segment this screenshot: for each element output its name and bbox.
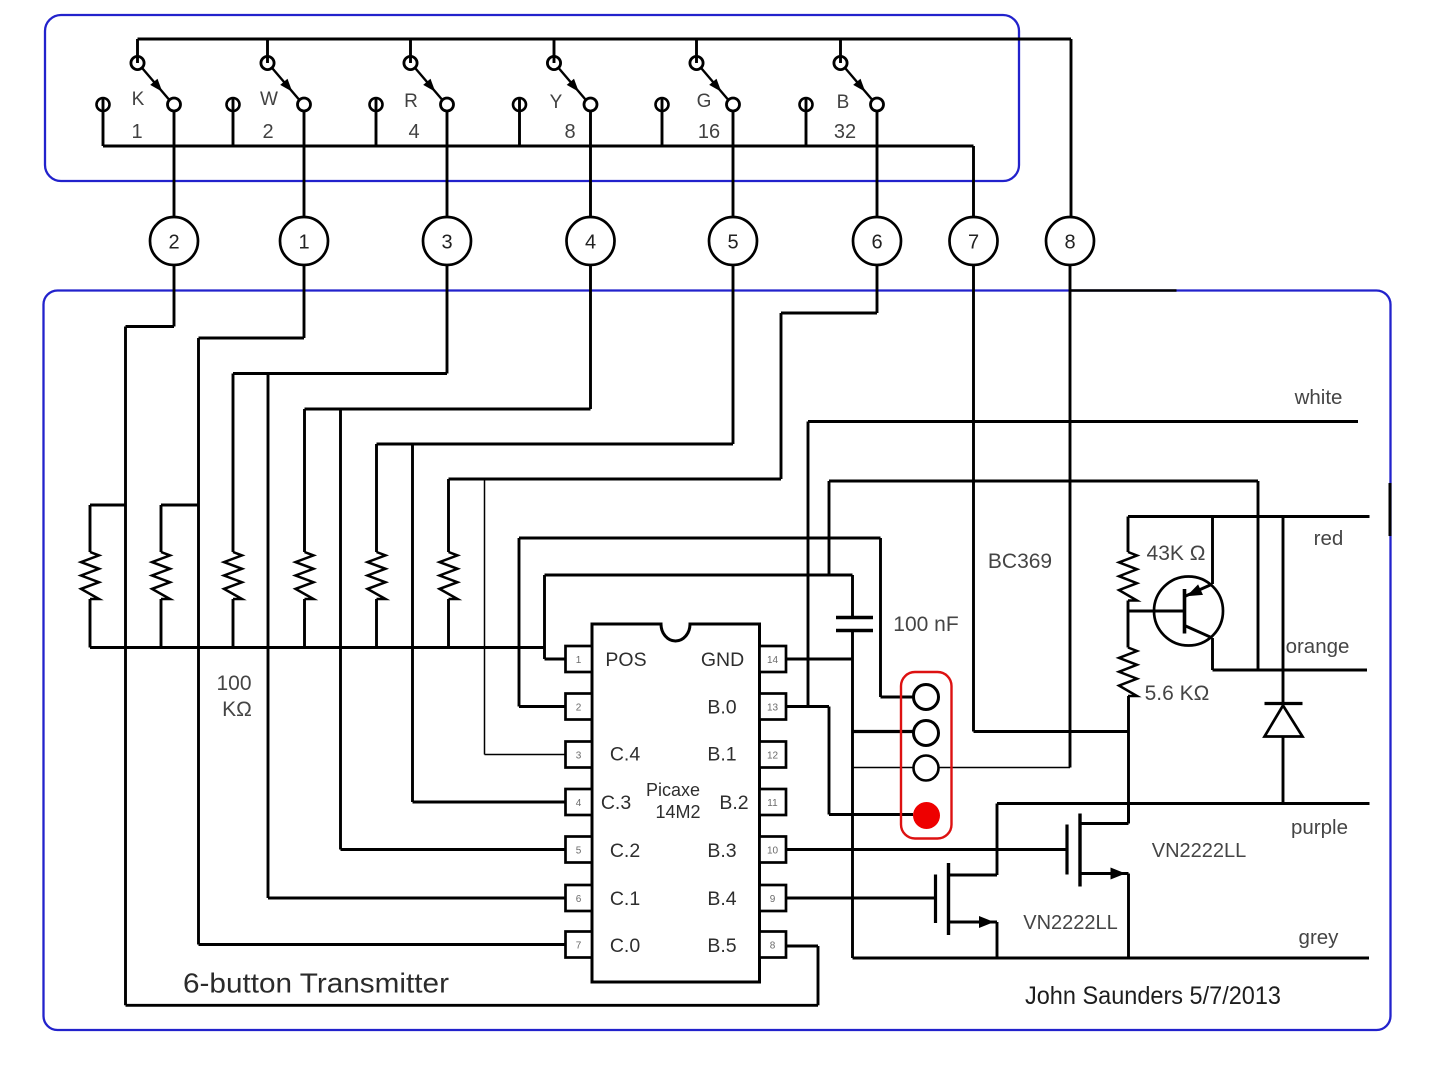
svg-text:4: 4 [408,121,419,143]
resistor R2 100K [152,552,170,648]
wire: GND to LED3 (thin) [853,767,914,769]
switch S1 (K) [131,39,181,111]
resistor R3 100K [224,552,242,648]
connector pin 4 [567,217,615,265]
LED4 circle (red) [913,802,940,829]
svg-text:R: R [404,91,418,112]
label value 1 [131,121,142,143]
wire: B.0 white net [785,422,1358,707]
wire: switch K pole to pin 2 [173,111,176,217]
wire: pin 7 net (conn7 down) [974,265,1129,732]
wire: conn8 to indicator (thin) [939,767,1071,769]
connector pin 2 [150,217,198,265]
indicator box (red) [901,672,952,839]
label 5.6K [1145,682,1210,705]
transistor Q2 VN2222LL [1067,804,1129,959]
label 100 nF [893,613,958,636]
wire: switch W pole to pin 1 [303,111,306,217]
diode D1 [1265,517,1303,804]
svg-text:1: 1 [131,121,142,143]
wire: branch conn4 to C.2 [341,409,566,850]
svg-text:1: 1 [298,232,309,254]
enclosure box: transmitter (blue) [44,291,1391,1031]
svg-text:13: 13 [767,703,779,714]
connector pin 1 [280,217,328,265]
switch S6 (B) [834,39,884,111]
LED1 circle [914,685,939,710]
label switch K [132,89,145,110]
resistor R7 43K [1119,517,1137,648]
svg-text:4: 4 [585,232,596,254]
label VN2222LL lower [1023,912,1118,934]
wire: top bus to pin 8 [1070,39,1073,217]
switch S2 (W) [261,39,311,111]
label grey [1299,926,1340,949]
svg-text:Y: Y [550,92,563,113]
wire: GND net [785,631,853,959]
wire: resistor common bus [90,646,545,649]
wire: branch conn5 to C.3 [413,444,566,802]
wire: GND to LED2 [853,730,914,733]
switch S4 (Y) [547,39,597,111]
wire: red rail [1128,515,1370,518]
label switch B [837,92,850,113]
svg-text:VN2222LL: VN2222LL [1152,840,1247,862]
wire: purple rail [997,802,1370,805]
label red [1314,527,1344,550]
svg-text:John Saunders 5/7/2013: John Saunders 5/7/2013 [1025,982,1281,1010]
wire: B.4 to Q3 gate [785,897,936,900]
wire: switch Y pole to pin 4 [589,111,592,217]
label switch W [260,89,278,110]
svg-text:9: 9 [770,894,776,905]
connector pin 8 [1046,217,1094,265]
wire: B.3 to Q2 gate [785,848,1067,851]
wire: switch B pole to pin 6 [876,111,879,217]
wire: B.0 to LED4 [829,707,913,815]
label white [1294,386,1343,409]
wire: bottom bus to pin 7 [972,146,975,217]
label purple [1291,816,1348,839]
wire: pin 1 net (conn1 -> C.0) [199,265,566,945]
switch S3 left contact [370,98,383,146]
svg-text:8: 8 [1064,232,1075,254]
svg-text:grey: grey [1299,926,1340,949]
wire: pin 5 net (conn5 -> R5, C.3) [377,265,734,552]
svg-text:43K Ω: 43K Ω [1147,542,1206,565]
label value 2 [262,121,273,143]
label value 32 [834,121,856,143]
svg-text:11: 11 [767,798,778,809]
svg-text:6: 6 [576,894,582,905]
svg-text:Picaxe: Picaxe [646,780,700,800]
connector pin 6 [853,217,901,265]
switch S6 left contact [800,98,813,146]
wire: POS to orange rail [829,481,1258,670]
svg-text:B.5: B.5 [707,935,736,957]
svg-text:KΩ: KΩ [222,698,252,721]
svg-text:14M2: 14M2 [655,802,700,822]
svg-text:6-button Transmitter: 6-button Transmitter [183,968,449,999]
switch S4 left contact [513,98,526,146]
label orange [1286,635,1350,658]
svg-text:B.3: B.3 [707,840,736,862]
title 6-button Transmitter [183,968,449,999]
resistor R8 5.6K [1119,648,1137,824]
svg-text:5: 5 [576,846,582,857]
svg-text:K: K [132,89,145,110]
svg-text:POS: POS [605,649,646,671]
svg-text:14: 14 [767,655,779,666]
svg-text:7: 7 [968,232,979,254]
connector pin 5 [709,217,757,265]
svg-text:G: G [697,91,712,112]
label value 16 [698,121,720,143]
svg-text:purple: purple [1291,816,1348,839]
svg-text:orange: orange [1286,635,1350,658]
wire: black segment on top border [1069,289,1177,292]
wire: pin2 to indicator LED1 [519,538,913,707]
label John Saunders [1025,982,1281,1010]
connector pin 3 [423,217,471,265]
transistor Q1 BC369 [1128,517,1223,671]
svg-text:B: B [837,92,850,113]
svg-text:8: 8 [564,121,575,143]
label 100 KOhm [216,672,251,721]
wire: branch conn6 to C.4 (thin) [485,479,566,755]
label value 8 [564,121,575,143]
resistor R1 100K [81,552,99,648]
svg-text:4: 4 [576,798,582,809]
switch S2 left contact [227,98,240,146]
svg-text:C.1: C.1 [610,888,640,910]
label 43K [1147,542,1206,565]
svg-text:3: 3 [441,232,452,254]
svg-text:C.0: C.0 [610,935,641,957]
wire: stub resistor R2 top [161,505,199,552]
svg-text:10: 10 [767,846,779,857]
svg-text:W: W [260,89,278,110]
svg-text:12: 12 [767,751,779,762]
svg-text:VN2222LL: VN2222LL [1023,912,1118,934]
svg-text:7: 7 [576,941,582,952]
resistor R5 100K [368,552,386,648]
svg-text:B.2: B.2 [719,792,748,814]
wire: right edge stub [1389,483,1392,536]
enclosure box: keypad (blue) [45,15,1019,181]
connector pin 7 [950,217,998,265]
svg-text:100: 100 [216,672,251,695]
svg-text:C.3: C.3 [601,792,631,814]
svg-text:GND: GND [701,649,744,671]
label BC369 [988,550,1052,573]
wire: pin 6 net (conn6 -> R6, C.4) [449,265,878,552]
svg-text:2: 2 [576,703,582,714]
switch S5 left contact [656,98,669,146]
wire: pin 3 net (conn3 -> R3, C.1) [233,265,447,552]
switch S1 left contact [97,98,110,146]
transistor Q3 VN2222LL [936,804,998,959]
svg-text:B.1: B.1 [707,744,736,766]
wire: switch R pole to pin 3 [446,111,449,217]
svg-text:8: 8 [770,941,776,952]
label VN2222LL upper [1152,840,1247,862]
LED2 circle [914,721,939,746]
switch S3 (R) [404,39,454,111]
LED3 circle [914,756,939,781]
wire: POS net [545,575,853,659]
switch S5 (G) [690,39,740,111]
svg-text:6: 6 [871,232,882,254]
wire: branch conn3 to C.1 [268,374,566,899]
IC pin labels [601,649,749,957]
svg-text:16: 16 [698,121,720,143]
svg-text:C.2: C.2 [610,840,640,862]
wire: grey rail [853,957,1370,960]
svg-text:2: 2 [262,121,273,143]
svg-text:BC369: BC369 [988,550,1052,573]
label switch G [697,91,712,112]
svg-text:5.6 KΩ: 5.6 KΩ [1145,682,1210,705]
svg-text:100 nF: 100 nF [893,613,958,636]
svg-text:3: 3 [576,751,582,762]
IC right pin stubs 8-14 [760,646,787,958]
svg-text:2: 2 [168,232,179,254]
wire: orange rail [1213,669,1368,672]
label switch Y [550,92,563,113]
wire: stub resistor R1 top [90,505,126,552]
svg-text:white: white [1294,386,1343,409]
resistor R4 100K [296,552,314,648]
IC left pin stubs 1-7 [566,646,593,958]
wire: pin 2 net (conn2 -> B.5 loop) [126,265,819,1005]
svg-text:5: 5 [727,232,738,254]
svg-text:B.4: B.4 [707,888,736,910]
wire: pin 4 net (conn4 -> R4, C.2) [305,265,591,552]
label value 4 [408,121,419,143]
svg-text:C.4: C.4 [610,744,641,766]
wire: switch G pole to pin 5 [732,111,735,217]
label switch R [404,91,418,112]
resistor R6 100K [440,552,458,648]
wire: switch common top bus [138,38,1072,41]
svg-text:32: 32 [834,121,856,143]
op-amp U1 body (Picaxe 14M2) [592,624,760,982]
svg-text:1: 1 [576,655,582,666]
wire: switch NC bottom bus [103,145,974,148]
svg-text:red: red [1314,527,1344,550]
svg-text:B.0: B.0 [707,697,736,719]
capacitor C1 100nF [836,618,873,631]
wire: pin 8 net (conn8 down) [1069,265,1072,768]
